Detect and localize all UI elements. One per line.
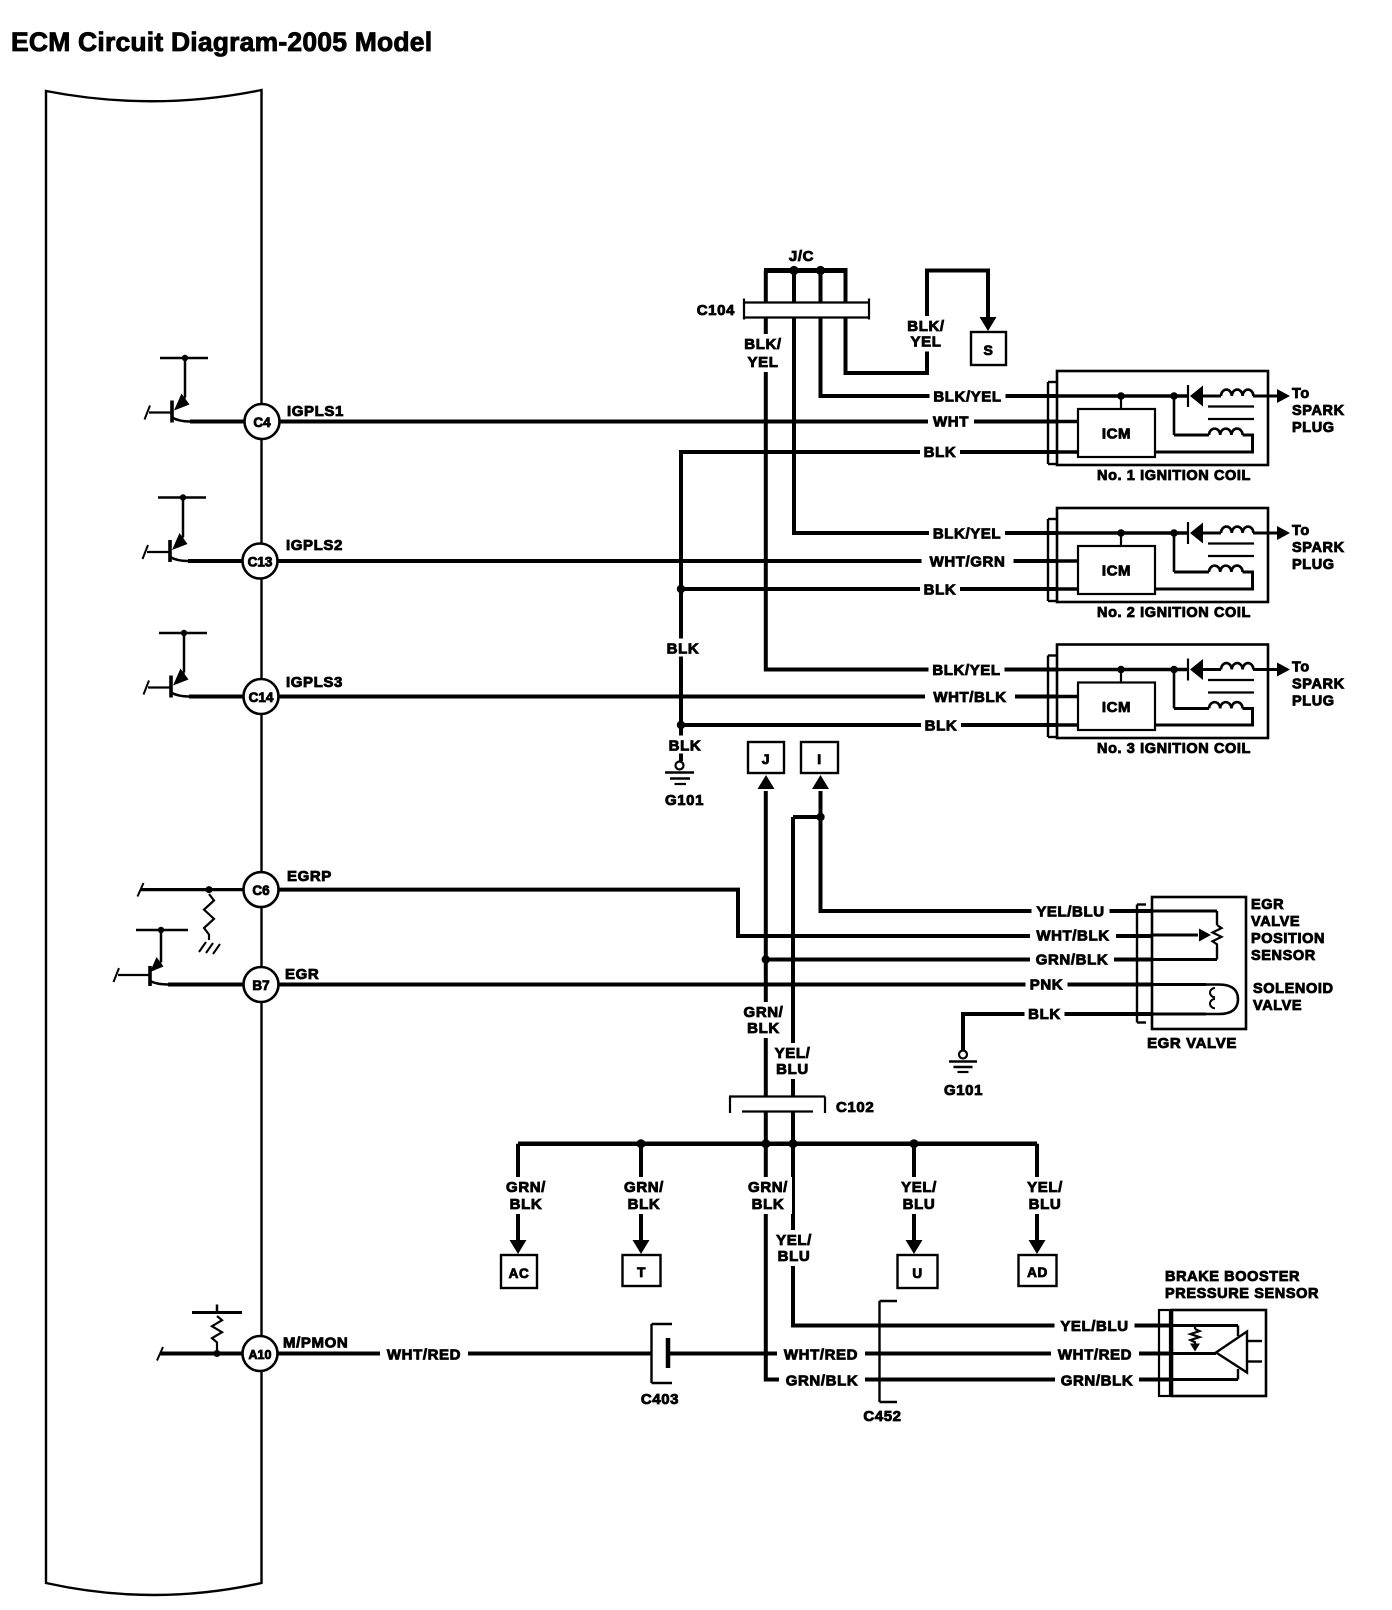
terminal box U <box>898 1255 938 1288</box>
transistor collector arrow <box>172 533 188 550</box>
svg-text:GRN/: GRN/ <box>748 1179 788 1196</box>
svg-text:No. 3 IGNITION COIL: No. 3 IGNITION COIL <box>1097 741 1251 757</box>
svg-text:GRN/: GRN/ <box>624 1179 664 1196</box>
terminal box I <box>801 742 838 773</box>
label GRN/BLK egr <box>1030 950 1114 968</box>
svg-text:J: J <box>762 751 770 767</box>
label GRN/BLK below C102 <box>744 1177 792 1214</box>
base lead cut slash <box>145 406 151 420</box>
label GRN/BLK at AC branch <box>503 1177 549 1214</box>
cut slash B7 base lead <box>114 968 120 982</box>
No.3 ignition coil box <box>1057 645 1268 739</box>
transistor base lead <box>147 551 170 553</box>
label BLK above ground <box>665 736 705 754</box>
svg-text:SOLENOID: SOLENOID <box>1253 981 1334 997</box>
EGR sensor wiper <box>1152 934 1198 937</box>
transistor base bar <box>169 676 173 698</box>
coil 1 core <box>1208 405 1254 407</box>
svg-text:BLK: BLK <box>752 1196 785 1213</box>
base lead cut slash <box>144 681 150 695</box>
wire YEL/BLU from I to EGR valve <box>821 791 1153 911</box>
resistor to ground at C6 (internal) <box>141 888 244 891</box>
wire YEL/BLU link to C102 <box>793 817 821 1096</box>
transistor emitter <box>170 557 188 561</box>
label WHT/RED at A10 <box>380 1345 468 1363</box>
sensor amplifier <box>1216 1332 1247 1373</box>
cut slash A10 lead <box>157 1347 163 1361</box>
label BLK/YEL row3 <box>929 660 1005 678</box>
terminal box S <box>971 332 1006 365</box>
ground G101 (right) <box>959 1051 967 1059</box>
EGR solenoid coil <box>1152 983 1206 986</box>
svg-text:BLK: BLK <box>747 1020 780 1037</box>
svg-text:YEL/BLU: YEL/BLU <box>1060 1318 1128 1335</box>
svg-text:EGR: EGR <box>285 966 319 983</box>
svg-text:C102: C102 <box>836 1099 874 1116</box>
coil 2 primary winding <box>1221 527 1253 533</box>
transistor collector drop <box>183 633 186 673</box>
svg-text:GRN/BLK: GRN/BLK <box>1061 1373 1134 1390</box>
transistor at B7 <box>136 929 188 932</box>
coil 1 spark plug output arrow <box>1277 389 1290 403</box>
sensor internal GRN/BLK <box>1172 1378 1238 1381</box>
svg-text:BLK/YEL: BLK/YEL <box>933 526 1001 543</box>
wire EGRP row <box>244 890 1152 936</box>
svg-text:WHT/BLK: WHT/BLK <box>933 689 1006 706</box>
wire GRN/BLK branch to EGR valve <box>766 958 1152 962</box>
connector C102 <box>729 1095 825 1097</box>
No.2 ignition coil box <box>1057 508 1268 602</box>
connector pin A10 <box>243 1336 278 1371</box>
coil 2 junction to secondary <box>1170 529 1178 537</box>
svg-text:C403: C403 <box>641 1391 679 1408</box>
transistor base lead <box>148 686 171 688</box>
svg-text:M/PMON: M/PMON <box>283 1335 348 1352</box>
transistor emitter <box>171 693 189 697</box>
transistor collector lead <box>159 632 207 635</box>
label BLK/YEL vertical <box>741 334 785 372</box>
wire IGPLS1 WHT row <box>190 420 1057 424</box>
wire BLK from EGR valve to ground <box>963 1014 1152 1050</box>
svg-text:GRN/BLK: GRN/BLK <box>786 1373 859 1390</box>
svg-text:ICM: ICM <box>1102 699 1131 716</box>
coil 1 secondary winding <box>1174 434 1209 437</box>
J/C drop wires <box>764 271 768 304</box>
coil 3 primary feed wire <box>1057 668 1188 672</box>
svg-text:SPARK: SPARK <box>1292 677 1345 693</box>
svg-text:PLUG: PLUG <box>1292 694 1335 710</box>
svg-text:S: S <box>984 342 994 358</box>
coil 3 diode <box>1187 659 1189 681</box>
label BLK row1 <box>920 442 960 460</box>
svg-text:T: T <box>637 1265 646 1280</box>
label PNK egr <box>1026 975 1068 993</box>
coil 1 WHT input <box>1057 420 1078 424</box>
svg-text:BLK: BLK <box>1028 1006 1061 1023</box>
transistor collector arrow <box>174 394 190 411</box>
coil 3 BLK input <box>1057 723 1078 727</box>
label BLK row3 <box>921 716 961 734</box>
wire M/PMON WHT/RED row <box>160 1352 652 1356</box>
sensor internal resistor <box>1194 1326 1196 1330</box>
svg-text:ECM Circuit Diagram-2005 Model: ECM Circuit Diagram-2005 Model <box>11 27 432 57</box>
svg-text:C4: C4 <box>253 415 271 430</box>
transistor collector drop <box>182 498 185 538</box>
svg-text:BLK: BLK <box>510 1196 543 1213</box>
coil 1 primary feed wire <box>1057 394 1188 398</box>
svg-text:VALVE: VALVE <box>1251 914 1300 930</box>
label WHT/BLK egr <box>1030 926 1116 944</box>
connector pin C14 <box>244 679 279 714</box>
connector pin C4 <box>245 404 280 439</box>
EGR sensor element <box>1152 910 1217 913</box>
svg-text:G101: G101 <box>665 792 704 809</box>
svg-text:C6: C6 <box>252 883 270 898</box>
label BLK/YEL row1 <box>930 387 1006 405</box>
junction on collector lead <box>180 494 186 500</box>
svg-text:BLK/YEL: BLK/YEL <box>932 662 1000 679</box>
No.1 ignition coil box <box>1057 371 1268 465</box>
label GRN/BLK right <box>1055 1371 1139 1389</box>
svg-text:WHT: WHT <box>933 414 969 431</box>
svg-text:To: To <box>1292 660 1310 676</box>
svg-text:C14: C14 <box>249 690 274 705</box>
label BLK egr <box>1025 1004 1065 1022</box>
label YEL/BLU mid column <box>773 1230 815 1266</box>
svg-text:YEL/: YEL/ <box>901 1179 937 1196</box>
transistor base bar <box>170 401 174 423</box>
label WHT/RED mid <box>777 1345 865 1363</box>
cut slash C6 lead <box>138 883 144 897</box>
svg-text:BLU: BLU <box>778 1248 811 1265</box>
svg-text:C104: C104 <box>697 302 735 319</box>
svg-text:BRAKE BOOSTER: BRAKE BOOSTER <box>1165 1269 1300 1285</box>
wire branch to U <box>912 1144 916 1241</box>
coil 2 core <box>1208 542 1254 544</box>
svg-text:EGRP: EGRP <box>287 868 332 885</box>
arrow into S <box>980 317 997 331</box>
svg-text:GRN/: GRN/ <box>744 1004 784 1021</box>
svg-text:WHT/RED: WHT/RED <box>1058 1347 1132 1364</box>
svg-text:BLK: BLK <box>925 718 958 735</box>
label BLK row2 <box>920 580 960 598</box>
label BLK vertical <box>663 639 703 657</box>
svg-text:YEL/: YEL/ <box>775 1045 811 1062</box>
svg-text:WHT/RED: WHT/RED <box>387 1347 461 1364</box>
EGR connector bracket <box>1136 905 1138 1023</box>
label YEL/BLU right <box>1055 1316 1135 1334</box>
svg-text:AD: AD <box>1027 1265 1048 1280</box>
connector pin C6 <box>244 872 279 907</box>
svg-text:BLK: BLK <box>924 582 957 599</box>
svg-text:YEL/: YEL/ <box>776 1232 812 1249</box>
svg-text:BLU: BLU <box>776 1061 809 1078</box>
svg-text:GRN/BLK: GRN/BLK <box>1036 952 1109 969</box>
svg-text:IGPLS3: IGPLS3 <box>286 674 343 691</box>
coil 3 junction to secondary <box>1170 666 1178 674</box>
terminal box J <box>748 742 784 773</box>
wire BLK/YEL column to No.2 coil <box>794 318 1057 533</box>
svg-text:VALVE: VALVE <box>1253 998 1302 1014</box>
sensor output stubs <box>1247 1340 1262 1342</box>
connector C104 <box>744 301 869 303</box>
label WHT/RED right <box>1051 1345 1139 1363</box>
svg-text:ICM: ICM <box>1102 563 1131 580</box>
pull-up clamp at A10 (internal) <box>160 1352 243 1355</box>
coil 2 ICM module <box>1078 546 1155 594</box>
label WHT row1 <box>928 412 974 430</box>
sensor internal YEL/BLU <box>1172 1324 1238 1327</box>
transistor collector drop <box>184 358 187 398</box>
svg-text:SENSOR: SENSOR <box>1251 948 1316 964</box>
svg-text:G101: G101 <box>944 1082 983 1099</box>
distribution bus <box>518 1141 1037 1146</box>
terminal box AD <box>1019 1255 1057 1286</box>
label WHT/GRN row2 <box>922 552 1014 570</box>
coil 1 primary winding <box>1221 390 1253 396</box>
svg-text:PNK: PNK <box>1030 977 1063 994</box>
label YEL/BLU at AD branch <box>1024 1177 1066 1214</box>
wire BLK/YEL column to No.1 coil <box>821 318 1058 396</box>
svg-text:B7: B7 <box>252 978 269 993</box>
coil 2 secondary winding <box>1174 571 1209 574</box>
arrow into I <box>812 775 829 789</box>
svg-text:BLK/YEL: BLK/YEL <box>933 389 1001 406</box>
svg-text:GRN/: GRN/ <box>506 1179 546 1196</box>
transistor collector lead <box>158 496 206 499</box>
svg-text:PRESSURE SENSOR: PRESSURE SENSOR <box>1165 1286 1319 1302</box>
transistor collector lead <box>160 357 208 360</box>
coil 2 WHT input <box>1057 559 1078 563</box>
svg-text:A10: A10 <box>249 1348 272 1362</box>
svg-text:YEL/BLU: YEL/BLU <box>1036 904 1104 921</box>
svg-text:AC: AC <box>509 1266 530 1281</box>
junction on collector lead <box>181 630 187 636</box>
coil 3 primary winding <box>1221 663 1253 669</box>
label YEL/BLU at U branch <box>898 1177 940 1214</box>
svg-text:WHT/GRN: WHT/GRN <box>930 554 1006 571</box>
base lead cut slash <box>143 545 149 559</box>
svg-text:WHT/RED: WHT/RED <box>784 1347 858 1364</box>
svg-text:PLUG: PLUG <box>1292 420 1335 436</box>
coil 2 junction to ICM <box>1117 529 1125 537</box>
svg-text:YEL: YEL <box>748 354 779 371</box>
svg-text:YEL: YEL <box>911 334 942 351</box>
terminal box T <box>623 1255 661 1286</box>
ECM body outline <box>46 90 262 1595</box>
label GRN/BLK at T branch <box>621 1177 667 1214</box>
wire GRN/BLK from J to C102 <box>764 791 768 1096</box>
wire WHT/RED from C403 to sensor <box>670 1352 1172 1356</box>
arrow into J <box>758 775 775 789</box>
coil 2 BLK input <box>1057 587 1078 591</box>
coil 1 junction to secondary <box>1170 392 1178 400</box>
coil 1 BLK input <box>1057 450 1078 454</box>
coil 1 ICM module <box>1078 409 1155 457</box>
coil 3 secondary winding <box>1174 707 1209 710</box>
transistor base bar <box>168 540 172 562</box>
svg-text:EGR: EGR <box>1251 897 1284 913</box>
connector C452 <box>878 1301 880 1402</box>
coil 1 connector bracket <box>1047 382 1049 464</box>
transistor base lead <box>149 411 172 413</box>
wire branch to T <box>639 1144 643 1241</box>
svg-text:POSITION: POSITION <box>1251 931 1325 947</box>
J/C junction dots <box>789 266 798 275</box>
svg-text:I: I <box>817 751 822 767</box>
svg-text:C13: C13 <box>248 555 273 570</box>
svg-text:EGR VALVE: EGR VALVE <box>1147 1035 1237 1052</box>
wire IGPLS2 WHT/GRN row <box>188 559 1057 563</box>
svg-text:YEL/: YEL/ <box>1027 1179 1063 1196</box>
svg-text:C452: C452 <box>863 1408 901 1425</box>
transistor emitter <box>172 418 190 422</box>
svg-text:J/C: J/C <box>789 248 814 265</box>
wire BLK/YEL column to No.3 coil <box>766 318 1057 670</box>
sensor connector bracket <box>1159 1310 1170 1396</box>
wire EGR PNK row <box>168 983 1152 987</box>
coil 1 diode <box>1187 385 1189 407</box>
svg-text:WHT/BLK: WHT/BLK <box>1036 928 1109 945</box>
coil 2 diode <box>1187 522 1189 544</box>
svg-text:To: To <box>1292 386 1310 402</box>
label BLK/YEL row2 <box>929 524 1005 542</box>
wire GRN/BLK from C102 to C452 row <box>766 1112 1172 1380</box>
connector pin B7 <box>244 967 279 1002</box>
svg-text:BLK: BLK <box>669 738 702 755</box>
wire branch to AC <box>516 1144 520 1241</box>
coil 1 junction to ICM <box>1117 392 1125 400</box>
label YEL/BLU above C102 <box>772 1043 814 1079</box>
coil 2 spark plug output arrow <box>1277 526 1290 540</box>
svg-text:BLK: BLK <box>667 641 700 658</box>
wire YEL/BLU from C102 to sensor row <box>793 1112 1172 1326</box>
junction dots BLK column <box>677 585 685 593</box>
svg-text:BLU: BLU <box>1029 1196 1062 1213</box>
svg-text:BLK/: BLK/ <box>744 336 782 353</box>
coil 3 spark plug output arrow <box>1277 663 1290 677</box>
svg-text:BLK: BLK <box>924 444 957 461</box>
sensor internal WHT/RED <box>1172 1352 1216 1355</box>
svg-text:PLUG: PLUG <box>1292 557 1335 573</box>
svg-text:IGPLS2: IGPLS2 <box>286 537 343 554</box>
label BLK/YEL at S wire <box>904 316 948 352</box>
svg-text:No. 2 IGNITION COIL: No. 2 IGNITION COIL <box>1097 605 1251 621</box>
terminal box AC <box>501 1255 537 1288</box>
svg-text:SPARK: SPARK <box>1292 540 1345 556</box>
wire BLK common with ground drop <box>681 452 1057 761</box>
emitter B7 <box>150 981 168 985</box>
label YEL/BLU egr <box>1032 902 1110 920</box>
connector C403 <box>650 1324 652 1383</box>
svg-text:IGPLS1: IGPLS1 <box>287 403 344 420</box>
EGR valve box <box>1152 897 1246 1029</box>
svg-text:No. 1 IGNITION COIL: No. 1 IGNITION COIL <box>1097 468 1251 484</box>
svg-text:U: U <box>912 1266 922 1281</box>
ground G101 (left) <box>676 762 684 770</box>
wire BLK row to No.2 coil <box>681 587 1057 591</box>
coil 2 primary feed wire <box>1057 531 1188 535</box>
coil 2 connector bracket <box>1047 519 1049 601</box>
svg-text:BLU: BLU <box>903 1196 936 1213</box>
svg-text:To: To <box>1292 523 1310 539</box>
svg-text:SPARK: SPARK <box>1292 403 1345 419</box>
label WHT/BLK row3 <box>925 687 1015 705</box>
coil 3 ICM module <box>1078 683 1155 731</box>
junction on collector lead <box>182 355 188 361</box>
coil 3 junction to ICM <box>1117 666 1125 674</box>
chassis ground hatching <box>199 942 206 952</box>
label GRN/BLK above C102 <box>740 1002 787 1038</box>
brake booster sensor box <box>1172 1310 1266 1396</box>
coil 3 WHT input <box>1057 695 1078 699</box>
svg-text:BLK/: BLK/ <box>907 318 945 335</box>
connector pin C13 <box>243 544 278 579</box>
bus junction dots <box>637 1139 646 1148</box>
wire BLK/YEL to S (junction branch) <box>846 271 989 374</box>
junction connector J/C bus <box>764 268 848 273</box>
svg-text:ICM: ICM <box>1102 426 1131 443</box>
svg-text:BLK: BLK <box>628 1196 661 1213</box>
wire IGPLS3 WHT/BLK row <box>189 695 1057 699</box>
coil 3 connector bracket <box>1047 656 1049 738</box>
wire BLK row to No.3 coil <box>681 723 1057 727</box>
wire branch to AD <box>1035 1144 1039 1241</box>
transistor collector arrow <box>173 669 189 686</box>
label GRN/BLK mid <box>779 1371 865 1389</box>
coil 3 core <box>1208 679 1254 681</box>
